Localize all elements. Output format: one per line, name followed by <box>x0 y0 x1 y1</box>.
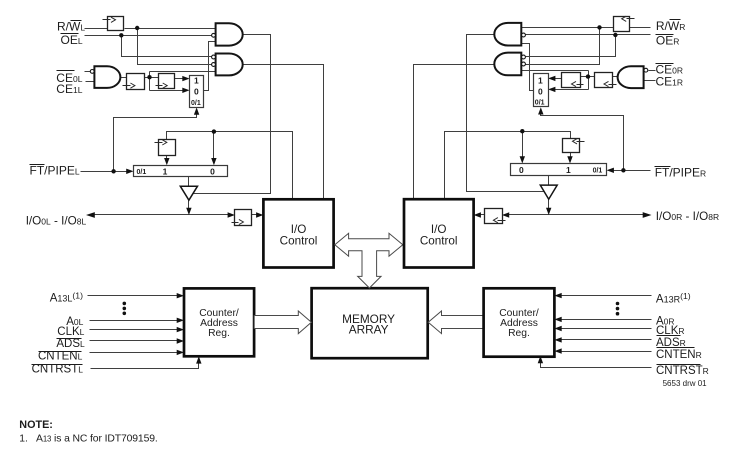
svg-text:0/1: 0/1 <box>191 100 201 107</box>
buffer T2 output driver right <box>540 185 557 199</box>
svg-text:R/WL: R/WL <box>57 20 85 34</box>
wire AND1 output to buffer enable <box>194 35 271 194</box>
arrow into FT muxR 0 input <box>520 156 525 163</box>
svg-text:1. A13 is a NC for IDT709159: 1. A13 is a NC for IDT709159. <box>19 434 157 445</box>
svg-text:R/WR: R/WR <box>656 19 685 33</box>
svg-text:CNTENR: CNTENR <box>656 349 702 361</box>
arrow buffer onto I/O bus <box>186 208 191 215</box>
wire R/W_R net <box>522 28 651 65</box>
junction FT/PIPE_R <box>621 168 625 172</box>
arrow CNTEN_R into counter R <box>554 348 561 353</box>
latch U4 FT latch left <box>155 140 176 156</box>
bubble G1 input2 <box>212 33 216 37</box>
wire I/O bus left <box>93 214 259 216</box>
wire CNTRST_R <box>541 362 652 368</box>
svg-text:NOTE:: NOTE: <box>19 419 53 431</box>
hollow arrow I/O controls to memory array <box>335 233 403 288</box>
node A13R input label <box>656 291 691 305</box>
latch U1 R/W latch left <box>103 17 124 31</box>
mux M3 CE pipeline select right <box>534 74 549 107</box>
svg-text:1: 1 <box>566 165 571 175</box>
arrow ADS_L into counter <box>177 338 184 343</box>
svg-text:ARRAY: ARRAY <box>349 323 389 337</box>
svg-text:CE1L: CE1L <box>56 82 82 96</box>
arrow into CE mux input 1 <box>182 76 189 81</box>
wire output buffer R to I/O bus <box>548 200 550 211</box>
wire AND1R output to buffer enable <box>467 35 545 192</box>
svg-text:0: 0 <box>519 165 524 175</box>
wire CNTRST_L <box>91 362 199 369</box>
latch U9 FT latch right <box>563 139 585 153</box>
svg-text:Reg.: Reg. <box>508 328 530 339</box>
node FT/PIPE_R input label <box>655 166 707 180</box>
wire FT mux to output buffer <box>188 177 190 187</box>
svg-text:I/O0L - I/O8L: I/O0L - I/O8L <box>26 215 87 228</box>
arrow CLK_L into counter <box>177 327 184 332</box>
wire CLK_L <box>90 329 179 331</box>
arrow into CE mux select <box>194 107 199 114</box>
wire CLK_R <box>560 328 652 330</box>
node CNTRST_L input label <box>32 364 84 376</box>
svg-text:Control: Control <box>420 235 458 248</box>
node CLK_L input label <box>57 326 84 338</box>
wire latch1R output node <box>522 71 595 90</box>
bubble G5 input1 <box>522 55 526 59</box>
wire CE gate R output to latch1R <box>613 76 619 78</box>
node CE1_L input label <box>56 82 82 96</box>
node R/W_L input label <box>57 20 85 34</box>
wire latch1 output node <box>145 72 216 91</box>
node CE1_R input label <box>656 75 684 89</box>
wire CE0_R lead <box>649 70 656 72</box>
arrow into latch4 <box>228 212 235 217</box>
arrow ADS_R into counter R <box>554 337 561 342</box>
wire R/W_L net <box>85 29 216 65</box>
buffer T1 output driver left <box>180 186 197 200</box>
arrow A0R into counter R <box>554 317 561 322</box>
node OE_L input label <box>61 33 83 47</box>
latch U2 CE latch1 left <box>123 74 145 90</box>
junction R/W_L <box>135 26 139 30</box>
arrow into CE muxR input 1 <box>548 76 555 81</box>
svg-text:0: 0 <box>210 167 215 177</box>
svg-text:CNTRSTR: CNTRSTR <box>656 365 709 377</box>
junction latch1R out <box>586 74 590 78</box>
arrow A13R into counter R <box>554 293 561 298</box>
wire FT/PIPE_L input <box>81 171 129 173</box>
dots ellipsis right address <box>616 302 620 316</box>
junction FT/PIPE_L <box>111 169 115 173</box>
and-gate G6 chip-enable right <box>618 66 644 88</box>
latch U5 I/O latch left <box>232 210 252 226</box>
node ADS_L input label <box>56 338 85 350</box>
wire output buffer to I/O bus <box>188 201 190 211</box>
wire A13L <box>88 295 179 297</box>
wire AND2 output to I/O control <box>243 65 324 200</box>
svg-text:FT/PIPER: FT/PIPER <box>655 166 706 180</box>
wire FT/PIPE_R input <box>612 170 651 172</box>
node CE0_L input label <box>56 71 82 86</box>
node CLK_R input label <box>656 325 685 337</box>
svg-text:A13L(1): A13L(1) <box>50 290 83 304</box>
node FT/PIPE_L input label <box>30 164 80 178</box>
hollow arrow counter left to memory <box>254 311 311 334</box>
node I/O0R-I/O8R label <box>656 210 719 223</box>
arrow CNTEN_L into counter <box>177 350 184 355</box>
latch U8 CE latch2 right <box>562 73 584 88</box>
wire latch2R output to muxR 1 input <box>554 78 562 80</box>
bubble G4 input2 <box>522 33 526 37</box>
node CNTEN_L input label <box>38 350 83 362</box>
mux M4 FT/PIPE select right <box>511 164 607 176</box>
junction OE_R <box>613 33 617 37</box>
wire OE_R net <box>526 35 651 57</box>
node ADS_R input label <box>656 336 686 350</box>
wire FT/PIPE_R to CE muxR select <box>541 112 624 171</box>
arrow latch3R into FT muxR <box>567 156 572 163</box>
arrow CLK_R into counter R <box>554 326 561 331</box>
wire CNTEN_L <box>90 352 179 354</box>
wire latch3R loop to I/O control R <box>445 132 571 200</box>
hollow arrow counter right to memory <box>428 311 484 334</box>
arrow buffer R onto I/O bus <box>546 208 551 215</box>
wire I/O bus right <box>479 214 647 216</box>
svg-text:0: 0 <box>194 87 199 97</box>
and-gate G5 right (write enable) <box>494 53 521 76</box>
bubble G6 input1 <box>644 68 648 72</box>
wire FT/PIPE_L to CE mux select <box>114 112 197 172</box>
junction R/W_R <box>597 25 601 29</box>
arrow into FT mux 0 input <box>211 158 216 165</box>
wire latch3 loop to I/O control <box>167 132 293 200</box>
bubble G2 input2 <box>212 63 216 67</box>
wire A0R <box>560 319 652 321</box>
node CNTEN_R input label <box>656 348 702 362</box>
svg-text:0/1: 0/1 <box>535 99 545 106</box>
node CNTRST_R input label <box>656 365 709 377</box>
arrow A0L into counter <box>177 318 184 323</box>
svg-text:0/1: 0/1 <box>137 169 147 176</box>
svg-text:A13R(1): A13R(1) <box>656 291 691 305</box>
svg-text:1: 1 <box>538 75 543 85</box>
wire A0L <box>90 320 179 322</box>
block I/O Control right <box>404 199 474 267</box>
block I/O Control left <box>263 199 333 267</box>
arrow A13L into counter <box>177 293 184 298</box>
wire CE muxR output to AND1R <box>522 44 534 91</box>
arrow I/O bus to pins left <box>86 212 95 218</box>
arrow I/O bus to pins right <box>643 212 652 218</box>
wire CE1_L lead <box>86 81 95 83</box>
svg-text:Reg.: Reg. <box>208 328 230 339</box>
latch U3 CE latch2 left <box>156 74 175 89</box>
latch U6 R/W latch right <box>614 16 635 31</box>
wire AND2R output to I/O control R <box>414 65 497 200</box>
arrow latch4R into I/O control R <box>474 212 481 217</box>
svg-text:1: 1 <box>194 75 199 85</box>
latch U10 I/O latch right <box>485 209 506 224</box>
svg-text:CLKL: CLKL <box>57 326 84 338</box>
node A0L input label <box>66 316 83 328</box>
svg-text:5653 drw 01: 5653 drw 01 <box>663 379 708 388</box>
mux M1 CE pipeline select left <box>190 75 204 107</box>
node A13L input label <box>50 290 83 304</box>
arrow into CE mux input 0 <box>182 88 189 93</box>
arrow FT/PIPE_R into muxR <box>607 168 614 173</box>
arrow latch4 into I/O control <box>256 212 263 217</box>
node R/W_R input label <box>656 19 685 33</box>
svg-text:1: 1 <box>163 167 168 177</box>
wire CE1_R lead <box>644 80 656 82</box>
svg-text:I/O0R - I/O8R: I/O0R - I/O8R <box>656 210 719 223</box>
node CE0_R input label <box>656 63 684 77</box>
svg-text:CNTENL: CNTENL <box>38 350 83 362</box>
svg-text:OEL: OEL <box>61 33 83 47</box>
wire CE0_L lead <box>85 71 91 73</box>
wire A13R <box>560 295 652 297</box>
junction latch3R line <box>520 129 524 133</box>
wire CNTEN_R <box>560 351 652 353</box>
mux M2 FT/PIPE select left <box>134 166 228 177</box>
wire OE_L net <box>85 36 212 57</box>
dots ellipsis left address <box>123 302 127 316</box>
and-gate G1 left (read enable) <box>216 23 243 45</box>
svg-text:FT/PIPEL: FT/PIPEL <box>30 164 80 178</box>
bubble G2 input1 <box>212 55 216 59</box>
and-gate G4 right (read enable) <box>494 23 521 46</box>
svg-text:OER: OER <box>656 34 679 48</box>
wire FT muxR to output buffer R <box>548 176 550 186</box>
block Counter/Address Reg. right <box>484 288 555 356</box>
arrow into CE muxR select <box>538 107 543 114</box>
svg-text:0: 0 <box>538 87 543 97</box>
svg-text:Control: Control <box>280 235 318 248</box>
and-gate G3 chip-enable left <box>94 66 120 88</box>
arrow CNTRST_R into counter R <box>538 356 543 363</box>
wire ADS_L <box>90 340 179 342</box>
arrow FT/PIPE_L into mux <box>126 169 133 174</box>
arrow CNTRST_L into counter <box>196 356 201 363</box>
junction latch3 line <box>212 129 216 133</box>
arrow latch3 into FT mux <box>164 158 169 165</box>
junction OE_L <box>119 33 123 37</box>
node I/O0L-I/O8L label <box>26 215 87 228</box>
node A0R input label <box>656 315 675 327</box>
svg-text:CNTRSTL: CNTRSTL <box>32 364 84 376</box>
svg-text:0/1: 0/1 <box>593 168 603 175</box>
and-gate G2 left (write enable) <box>216 54 243 76</box>
junction latch1 out <box>147 75 151 79</box>
block Counter/Address Reg. left <box>184 288 254 356</box>
svg-text:CE1R: CE1R <box>656 75 684 89</box>
arrow into CE muxR input 0 <box>548 87 555 92</box>
bubble G5 input2 <box>522 62 526 66</box>
arrow into latch4R <box>502 212 509 217</box>
block MEMORY ARRAY <box>312 288 428 358</box>
latch U7 CE latch1 right <box>595 73 617 88</box>
svg-text:ADSL: ADSL <box>56 338 85 350</box>
wire CE gate output to latch1 <box>121 77 127 79</box>
wire ADS_R <box>560 339 652 341</box>
wire latch2 output to mux 1 input <box>175 78 185 80</box>
wire CE mux output to AND1 <box>204 42 216 91</box>
node OE_R input label <box>656 34 680 48</box>
bubble G3 input1 <box>90 70 94 74</box>
